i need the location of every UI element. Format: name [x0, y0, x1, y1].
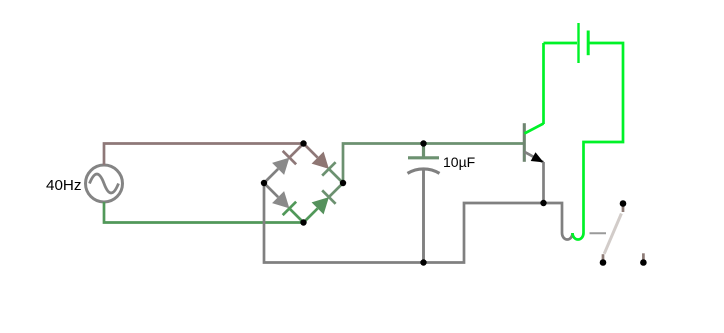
node: capacitor top junction	[420, 140, 426, 146]
transistor Q1 base bar	[523, 123, 526, 162]
node: capacitor bottom junction	[420, 259, 426, 265]
transistor Q1 emitter arrow	[531, 152, 544, 162]
wire: emitter node right and down to relay coil	[544, 203, 563, 233]
node: bridge left junction	[261, 180, 267, 186]
node: bridge top junction	[300, 140, 306, 146]
diode D1 (bridge top-left, left node to top node)	[264, 144, 304, 184]
node: emitter junction	[540, 200, 546, 206]
transistor Q1 emitter lead	[524, 152, 543, 163]
relay switch throw 1 post	[600, 259, 607, 266]
relay RL1 coil left arc	[562, 233, 573, 240]
node: bridge right junction	[340, 180, 346, 186]
wire: bridge right node up and right to capacitor and transistor base	[343, 144, 525, 184]
capacitor C1 bottom curved plate	[408, 169, 440, 173]
diode D4 (bridge bottom-right, bottom node to right node)	[304, 183, 344, 223]
svg-text:10µF: 10µF	[443, 154, 475, 170]
wire: AC source bottom terminal to bridge bottom node	[104, 202, 304, 223]
battery B1 negative plate	[587, 31, 590, 56]
diode D3 (bridge bottom-left, left node to bottom node)	[264, 183, 304, 223]
wire: capacitor bottom lead to bottom rail	[422, 170, 425, 263]
relay switch lever	[604, 214, 621, 254]
diode D2 (bridge top-right, top node to right node)	[304, 144, 344, 184]
wire: battery right lead down and left to relay coil	[584, 43, 624, 233]
relay RL1 coil right arc	[573, 233, 584, 240]
wire: emitter terminal down to node	[542, 162, 545, 203]
relay RL1 mechanical link dash	[590, 232, 607, 234]
wire: collector up to battery	[542, 43, 545, 124]
node: bridge bottom junction	[300, 219, 306, 225]
AC voltage source V1 (40Hz)	[86, 165, 123, 202]
relay switch throw 2 post	[640, 259, 647, 266]
relay switch throw 1 post stub	[602, 254, 605, 260]
capacitor C1 top plate	[408, 144, 439, 159]
svg-text:40Hz: 40Hz	[46, 177, 81, 194]
relay switch common post stub	[622, 205, 625, 212]
wire: battery left lead	[544, 42, 578, 45]
battery B1 positive plate	[577, 23, 579, 63]
relay switch common post	[620, 200, 627, 207]
transistor Q1 collector lead	[524, 124, 543, 134]
relay switch throw 2 post stub	[642, 253, 645, 260]
wire: AC source top terminal to bridge top node	[104, 144, 304, 166]
wire: bridge left node down, bottom rail, up to emitter node	[264, 183, 544, 263]
